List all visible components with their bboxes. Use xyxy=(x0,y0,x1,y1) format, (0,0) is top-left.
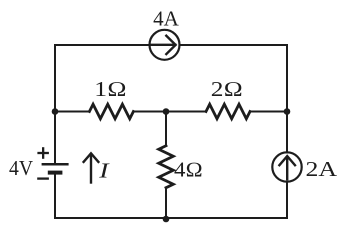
node A junction (left-middle) xyxy=(52,108,59,115)
resistor R2 2ohm xyxy=(206,104,250,119)
resistor R3 4ohm xyxy=(159,146,174,188)
wire middle-right stub xyxy=(250,111,287,113)
node D junction (center-bottom) xyxy=(163,216,170,223)
wire left-lower segment (with bottom-left corner) xyxy=(55,174,166,218)
wire middle-vertical upper stub xyxy=(165,112,167,146)
svg-text:4A: 4A xyxy=(153,7,180,31)
label - (battery negative) xyxy=(37,177,49,179)
wire top-left segment (with left-upper corner) xyxy=(55,45,150,163)
resistor R1 1ohm xyxy=(89,104,133,119)
label + (battery positive) xyxy=(37,147,49,159)
current arrow I (branch current annotation) xyxy=(84,153,99,182)
wire right-lower segment (with bottom-right corner) xyxy=(286,182,287,218)
wire top-right segment (with right-upper corner) xyxy=(180,45,288,153)
svg-text:2A: 2A xyxy=(306,157,339,181)
wire middle-vertical lower stub xyxy=(165,188,167,219)
current source I2 2A xyxy=(272,152,301,181)
svg-text:4Ω: 4Ω xyxy=(174,158,203,182)
svg-text:1Ω: 1Ω xyxy=(94,77,127,101)
node C junction (right-middle) xyxy=(284,108,291,115)
wire bottom segment (right half) xyxy=(166,217,287,219)
svg-text:4V: 4V xyxy=(9,156,33,180)
voltage source V1 4V xyxy=(42,164,69,172)
node B junction (center-middle) xyxy=(163,108,170,115)
wire middle-left stub xyxy=(55,111,89,113)
svg-text:2Ω: 2Ω xyxy=(211,77,243,101)
current source I1 4A xyxy=(150,30,180,60)
wire middle-center segment xyxy=(133,111,206,113)
svg-text:I: I xyxy=(98,159,110,183)
